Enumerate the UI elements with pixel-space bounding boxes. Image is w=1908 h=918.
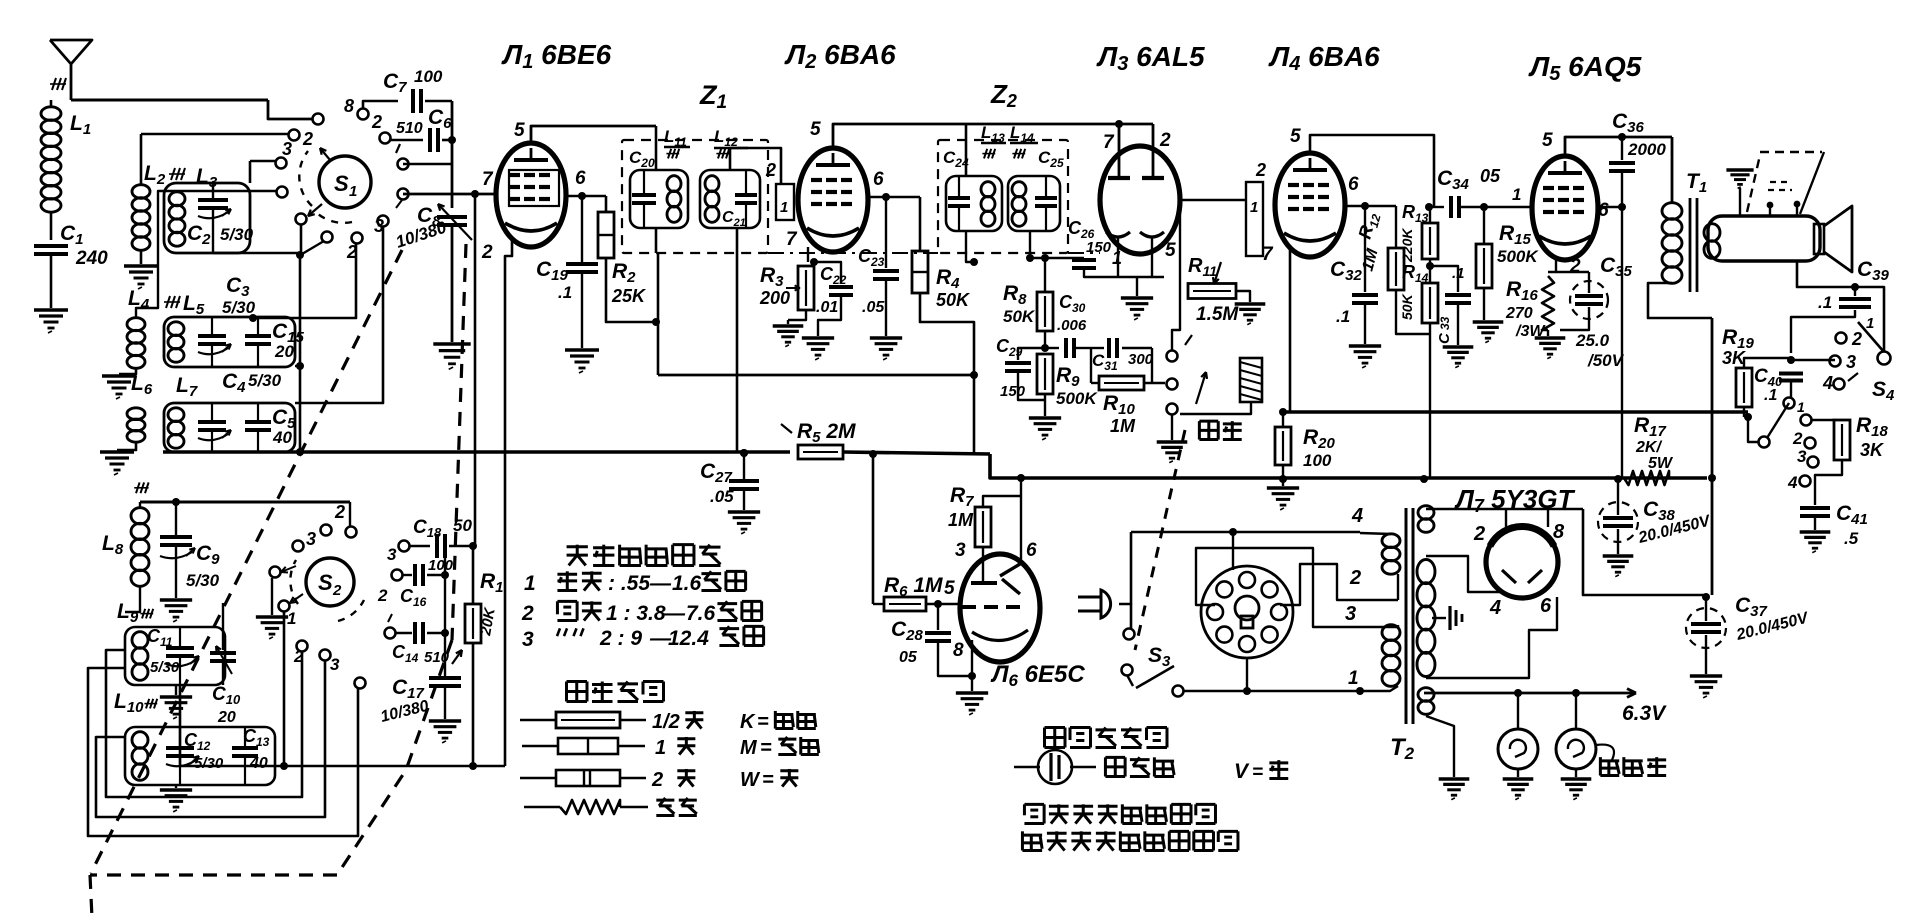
ground C23 (870, 336, 902, 339)
S2 contacts left (270, 567, 281, 578)
svg-text:1: 1 (349, 183, 357, 200)
capacitor C29 (1018, 348, 1045, 360)
speaker top ground hatch (1726, 168, 1753, 171)
T2 heater winding top (1418, 506, 1434, 520)
indicator lamp label (1596, 745, 1614, 760)
svg-text:8: 8 (344, 96, 354, 116)
svg-text:1: 1 (1250, 199, 1258, 216)
coil L14 (1012, 182, 1026, 197)
svg-text:25K: 25K (611, 286, 647, 306)
svg-text:2: 2 (1569, 256, 1581, 277)
ground V3 (1121, 296, 1153, 299)
V6 target bar (971, 581, 997, 585)
capacitor C18 (399, 541, 410, 552)
svg-text:1.6: 1.6 (672, 572, 702, 595)
svg-text:: .55: : .55 (608, 572, 650, 595)
capacitor C30 (1045, 347, 1059, 349)
resistor R14 (1426, 262, 1434, 270)
tube V4 6BA6 (1275, 153, 1345, 257)
S4 lower contacts (1801, 415, 1812, 426)
svg-text:6: 6 (1348, 174, 1359, 195)
variable capacitor C4 (198, 420, 226, 424)
svg-text:5: 5 (1290, 126, 1301, 147)
coil L9 (132, 632, 148, 649)
svg-text:1: 1 (1797, 399, 1805, 415)
rectifier tube V7 5Y3GT (1486, 526, 1558, 598)
svg-text:=: = (760, 737, 772, 759)
svg-text:5W: 5W (1648, 455, 1674, 472)
ground V6 (956, 691, 988, 694)
svg-text:270: 270 (1505, 305, 1533, 322)
svg-text:40: 40 (249, 755, 268, 772)
cathode R16 C35 (1555, 258, 1557, 272)
svg-text:5/30: 5/30 (220, 225, 254, 244)
ground C41 (1800, 530, 1831, 533)
legend band positions title (567, 545, 588, 548)
coil L7 (168, 408, 184, 422)
legend res row1 (520, 719, 556, 722)
power transformer T2 core (1405, 508, 1408, 724)
svg-text:4: 4 (1787, 473, 1798, 492)
tube V2 6BA6 (798, 148, 868, 252)
legend res row2 (522, 745, 558, 748)
svg-text:Л2 6BA6: Л2 6BA6 (784, 39, 896, 73)
wire pin5 V5 plate (1565, 137, 1672, 156)
heater wire top (1426, 508, 1583, 511)
variable capacitor C8 (437, 215, 467, 219)
S2 ground contact (271, 578, 273, 615)
svg-text:4: 4 (1489, 597, 1501, 619)
capacitor C21 (735, 193, 757, 197)
grid box V2 (776, 184, 794, 220)
svg-text:W: W (740, 769, 761, 791)
svg-text:5: 5 (810, 119, 821, 140)
wire pin5 V1 (531, 126, 656, 143)
wire contact8 to C7 (363, 101, 398, 109)
svg-text:1.5M: 1.5M (1196, 304, 1239, 325)
svg-text:1 : 3.8: 1 : 3.8 (606, 602, 666, 625)
wire contact 327 to node (302, 241, 324, 254)
svg-text:1: 1 (1512, 185, 1521, 204)
variable capacitor C11 (166, 646, 194, 650)
ground R9 (1029, 416, 1061, 419)
capacitor C19 (581, 196, 583, 262)
svg-text:40: 40 (272, 428, 292, 447)
svg-text:7: 7 (482, 169, 494, 190)
svg-text:1M: 1M (948, 510, 974, 530)
wire R6 branch (872, 454, 875, 604)
capacitor C38 electrolytic (1598, 502, 1638, 542)
variable capacitor C9 (175, 502, 177, 535)
svg-text:5/30: 5/30 (222, 298, 256, 317)
svg-text:8: 8 (953, 640, 964, 661)
svg-text:200: 200 (759, 288, 790, 308)
ground L4 (119, 368, 136, 374)
svg-text:2 : 9: 2 : 9 (599, 627, 642, 650)
svg-text:5: 5 (1542, 130, 1553, 151)
svg-text:3: 3 (1345, 603, 1356, 625)
svg-text:—: — (663, 602, 686, 625)
capacitor C32 (1364, 206, 1366, 292)
bus jog (990, 454, 1707, 478)
record label changpian (1199, 420, 1218, 423)
svg-text:3K: 3K (1860, 440, 1885, 460)
capacitor C25 (1035, 196, 1057, 200)
svg-text:3: 3 (387, 545, 397, 564)
svg-text:5/30: 5/30 (194, 755, 224, 772)
svg-text:240: 240 (75, 248, 108, 269)
wire S1 contact3 to C5 tank (295, 226, 383, 403)
resistor R15 (1483, 207, 1485, 244)
legend res row3 (520, 777, 556, 780)
pilot lamp 1 (1517, 693, 1519, 729)
capacitor C26 (1030, 257, 1084, 259)
T1 secondary (1704, 224, 1720, 242)
dashed enclosure bottom (90, 873, 337, 876)
svg-text:.006: .006 (1057, 317, 1087, 334)
tank L7 C4 C5 box (164, 403, 295, 452)
svg-text:1: 1 (1348, 668, 1359, 689)
wire Z1 top (655, 126, 658, 170)
wire Z2 pri bottom (966, 231, 974, 262)
capacitor C37 electrolytic (1686, 608, 1726, 648)
resistor R2 (605, 196, 608, 212)
svg-text:S: S (318, 570, 333, 595)
svg-text:.05: .05 (862, 299, 885, 316)
speaker terminals (1769, 203, 1771, 216)
svg-text:.1: .1 (1452, 265, 1465, 282)
svg-text:4: 4 (1822, 373, 1833, 393)
svg-text:5: 5 (1165, 240, 1176, 261)
svg-text:1/2: 1/2 (652, 711, 680, 733)
svg-text:2: 2 (377, 586, 388, 605)
speaker frame dashed (1747, 155, 1760, 212)
B+ vertical from T1 (1711, 318, 1714, 595)
ground C37 (1690, 674, 1722, 677)
switch S3 (1124, 629, 1135, 640)
svg-text:3: 3 (282, 139, 292, 159)
capacitor C35 electrolytic (1570, 281, 1608, 319)
capacitor C20 (632, 193, 656, 197)
pilot lamp 2 (1575, 693, 1577, 729)
wire pin6 V5 (1598, 206, 1622, 209)
ground L2 (140, 250, 143, 264)
svg-text:3: 3 (522, 628, 534, 651)
grid box V4 (1246, 182, 1263, 256)
svg-text:5/30: 5/30 (150, 659, 180, 676)
resistor R19 (1736, 368, 1752, 407)
phono switch contacts (1167, 351, 1178, 362)
svg-text:6: 6 (1540, 595, 1552, 617)
switch S4 upper (1878, 352, 1891, 365)
capacitor C13 (232, 746, 258, 750)
svg-text:1: 1 (524, 572, 536, 595)
legend res row4 (524, 806, 560, 809)
capacitor C39 (1854, 287, 1856, 296)
phono arm arrow (1196, 372, 1206, 404)
svg-text:50K: 50K (936, 290, 971, 310)
S2 contacts lower left (279, 601, 290, 612)
tank L3 C2 box (164, 183, 250, 253)
antenna (50, 40, 92, 64)
tank L5 C3 C15 box (164, 317, 295, 367)
wire nest N1 (106, 650, 302, 797)
ground C33 (1443, 345, 1474, 348)
C31 R10 box (1091, 348, 1152, 383)
IF transformer Z2 dashed box (938, 140, 1068, 253)
svg-text:=: = (757, 711, 769, 733)
tank L14 C25 box (1008, 176, 1060, 231)
svg-text:Л1 6BE6: Л1 6BE6 (501, 39, 612, 73)
V6 cathode (972, 630, 1028, 641)
svg-text:510: 510 (396, 120, 423, 137)
V3 diode plates (1115, 120, 1123, 128)
variable capacitor C17 (429, 676, 461, 680)
svg-text:S: S (334, 171, 349, 196)
T2 HV winding (1417, 560, 1435, 584)
svg-text:20: 20 (274, 342, 294, 361)
svg-text:3: 3 (306, 529, 316, 549)
svg-text:5/30: 5/30 (186, 571, 220, 590)
svg-text:12.4: 12.4 (668, 627, 709, 650)
capacitor C6 (428, 128, 432, 152)
svg-text:2: 2 (302, 129, 313, 149)
tank L10 C12 C13 box (125, 727, 275, 785)
svg-text:2: 2 (521, 602, 534, 625)
svg-text:5: 5 (944, 578, 955, 599)
B+ from rectifier (1583, 509, 1706, 595)
svg-text:05: 05 (899, 649, 918, 666)
HV top to plate4 (1426, 556, 1500, 592)
socket wire E (1280, 564, 1373, 605)
svg-text:33: 33 (1438, 316, 1452, 330)
wire nest N3 (180, 685, 505, 766)
svg-text:.1: .1 (1818, 293, 1832, 312)
svg-text:Л6 6E5C: Л6 6E5C (990, 661, 1085, 690)
wire pin5 V2 to detector bus (833, 124, 1153, 148)
wire R2 bottom (606, 258, 656, 322)
wire antenna bus (71, 99, 268, 102)
wire Z2 pri top (965, 124, 968, 176)
resistor R5 (798, 445, 843, 459)
wire jack down (1180, 402, 1251, 414)
resistor R20 (1275, 427, 1291, 465)
wire L8 top (139, 502, 141, 508)
capacitor C22 (814, 262, 841, 284)
svg-text:1: 1 (287, 609, 296, 628)
svg-text:3: 3 (374, 216, 384, 236)
phono jack (1240, 358, 1262, 402)
phono S3 gang dashed (1135, 430, 1185, 650)
wire C2 box to S1 (249, 161, 252, 183)
wire Z2 sec bottom (1029, 231, 1031, 258)
svg-text:150: 150 (1086, 239, 1112, 256)
coil L11 (667, 176, 681, 192)
svg-text:100: 100 (1303, 451, 1332, 470)
capacitor C16 (392, 570, 403, 581)
resistor R16 wirewound (1542, 276, 1554, 330)
svg-text:.5: .5 (1844, 529, 1859, 548)
svg-text:2: 2 (765, 160, 776, 180)
svg-text:7.6: 7.6 (686, 602, 716, 625)
capacitor C15 (245, 334, 271, 338)
svg-text:500K: 500K (1497, 247, 1539, 266)
6.3V heater wire (1424, 692, 1636, 695)
svg-text:6.3V: 6.3V (1622, 702, 1667, 725)
wire C2 bottom to vertical (213, 252, 300, 255)
svg-text:2K/: 2K/ (1635, 439, 1662, 456)
wire R11 right to ground (1236, 291, 1250, 302)
ground L10 box (175, 785, 177, 788)
wire pin2 V1 down (505, 240, 512, 766)
wire S1 to tube pin7 (403, 193, 497, 196)
variable capacitor C12 (166, 746, 194, 750)
svg-text:3: 3 (1797, 447, 1807, 466)
S1 contacts right (398, 159, 409, 170)
wire Z1 sec bottom down (736, 228, 739, 453)
svg-text:R5 2M: R5 2M (797, 420, 856, 446)
bus A main (163, 450, 790, 454)
socket stem top (1232, 533, 1234, 570)
ground C1 (34, 308, 68, 311)
wire L2 to S1 contact (141, 133, 290, 136)
wire nest N4 (88, 668, 358, 836)
capacitor C23 (885, 197, 887, 268)
wire Z1 sec top to V2 grid (730, 148, 781, 184)
wire osc vertical (451, 101, 454, 208)
svg-text:2: 2 (334, 502, 345, 522)
resistor R12 (1395, 206, 1397, 248)
wire plug (1119, 532, 1131, 604)
svg-text:K: K (740, 711, 756, 733)
svg-text:M: M (740, 737, 758, 759)
wire L4 top to S1 (136, 191, 278, 318)
svg-text:Л3 6AL5: Л3 6AL5 (1096, 41, 1205, 75)
svg-text:1: 1 (780, 199, 788, 216)
svg-text:2: 2 (1159, 130, 1171, 151)
svg-text:2: 2 (371, 112, 382, 132)
6.3V winding bottom to ground (1426, 716, 1454, 777)
wire contact bottom1 down (300, 224, 303, 253)
svg-text:6: 6 (1598, 200, 1609, 221)
svg-text:3: 3 (1846, 352, 1856, 372)
svg-text:8: 8 (1553, 521, 1565, 543)
wire pin6 V1 (566, 195, 606, 198)
resistor R17 on bus (1624, 471, 1669, 485)
tube V6 6E5C magic eye (960, 554, 1040, 662)
resistor R18 (1834, 420, 1850, 460)
bus AVC y375 (658, 374, 974, 377)
speaker (1708, 216, 1820, 261)
svg-text:.01: .01 (816, 299, 838, 316)
coil L3 (169, 192, 185, 206)
wire L8 bottom (125, 586, 140, 612)
svg-text:1: 1 (1866, 315, 1874, 332)
legend cap note1 (1024, 803, 1044, 806)
capacitor C24 (948, 196, 970, 200)
capacitor C33 (1430, 266, 1458, 292)
capacitor C14 (385, 628, 396, 639)
svg-text:500K: 500K (1056, 389, 1098, 408)
svg-text:50K: 50K (1399, 293, 1415, 320)
T2 6.3V winding (1418, 688, 1434, 702)
capacitor C36 (1618, 133, 1626, 141)
coil L2 (132, 185, 150, 199)
variable capacitor C2 (198, 198, 228, 202)
resistor R10 (1099, 376, 1144, 390)
wire mains bottom (1184, 690, 1360, 693)
legend capacitor title (1045, 726, 1066, 729)
resistor R7 (975, 507, 991, 547)
ground C8 (433, 342, 470, 345)
wire C16 C14 junction (444, 546, 446, 676)
tube V1 6BE6 (496, 143, 566, 247)
svg-text:2: 2 (651, 769, 663, 791)
svg-text:/50V: /50V (1587, 351, 1625, 370)
wire Z1 bottom to bus (655, 228, 658, 253)
wire C10 top (222, 603, 224, 650)
svg-text:C: C (1436, 332, 1453, 344)
svg-text:2: 2 (481, 242, 493, 263)
svg-text:2000: 2000 (1627, 140, 1666, 159)
coil L10 (132, 732, 148, 749)
T1 core (1689, 198, 1692, 292)
resistor R13 (1425, 203, 1433, 211)
svg-text:2: 2 (1792, 429, 1803, 448)
svg-text:5: 5 (514, 120, 525, 141)
ground C19 (565, 348, 599, 351)
ground C9 (160, 598, 192, 601)
wire S1 contact2 to C3 tank (249, 314, 257, 322)
svg-text:2: 2 (1349, 567, 1361, 589)
svg-text:=: = (762, 769, 774, 791)
coil L5 (168, 322, 184, 336)
ground C27 (728, 510, 760, 513)
switch S4 lower arm (1784, 398, 1795, 409)
svg-text:.1: .1 (558, 283, 572, 302)
ground L9 box (175, 685, 177, 695)
svg-text:7: 7 (786, 229, 798, 250)
svg-text:.1: .1 (1336, 307, 1350, 326)
tank C24 L13 box (946, 176, 1002, 231)
svg-text:2: 2 (1255, 160, 1266, 180)
capacitor C31 (1091, 347, 1104, 349)
resistor R1 (465, 604, 481, 643)
ground C32 (1349, 344, 1381, 347)
rotary switch S1 (319, 156, 371, 208)
HV centre tap chassis (1432, 617, 1446, 619)
resistor R9 (1037, 354, 1053, 394)
svg-text:05: 05 (1480, 166, 1501, 186)
tube V5 6AQ5 (1532, 156, 1598, 260)
V7 plates (1502, 570, 1516, 583)
capacitor C7 (411, 89, 415, 113)
IF transformer Z1 dashed box (622, 140, 768, 253)
wire contact to C8 top (403, 163, 452, 165)
wire pin5 V4 (1310, 135, 1434, 207)
ground R20 (1267, 486, 1299, 489)
svg-text:V: V (1234, 760, 1250, 783)
dashed gang line C8-C17 (452, 244, 466, 640)
svg-text:Л5 6AQ5: Л5 6AQ5 (1528, 51, 1642, 85)
coil L4 (127, 318, 145, 331)
S1 contacts bottom (296, 214, 307, 225)
capacitor C34 (1429, 206, 1444, 208)
T2 primary lower (1382, 625, 1400, 641)
ground C17 (429, 719, 461, 722)
svg-text:1M: 1M (1110, 416, 1136, 436)
ground C38 (1603, 554, 1634, 557)
